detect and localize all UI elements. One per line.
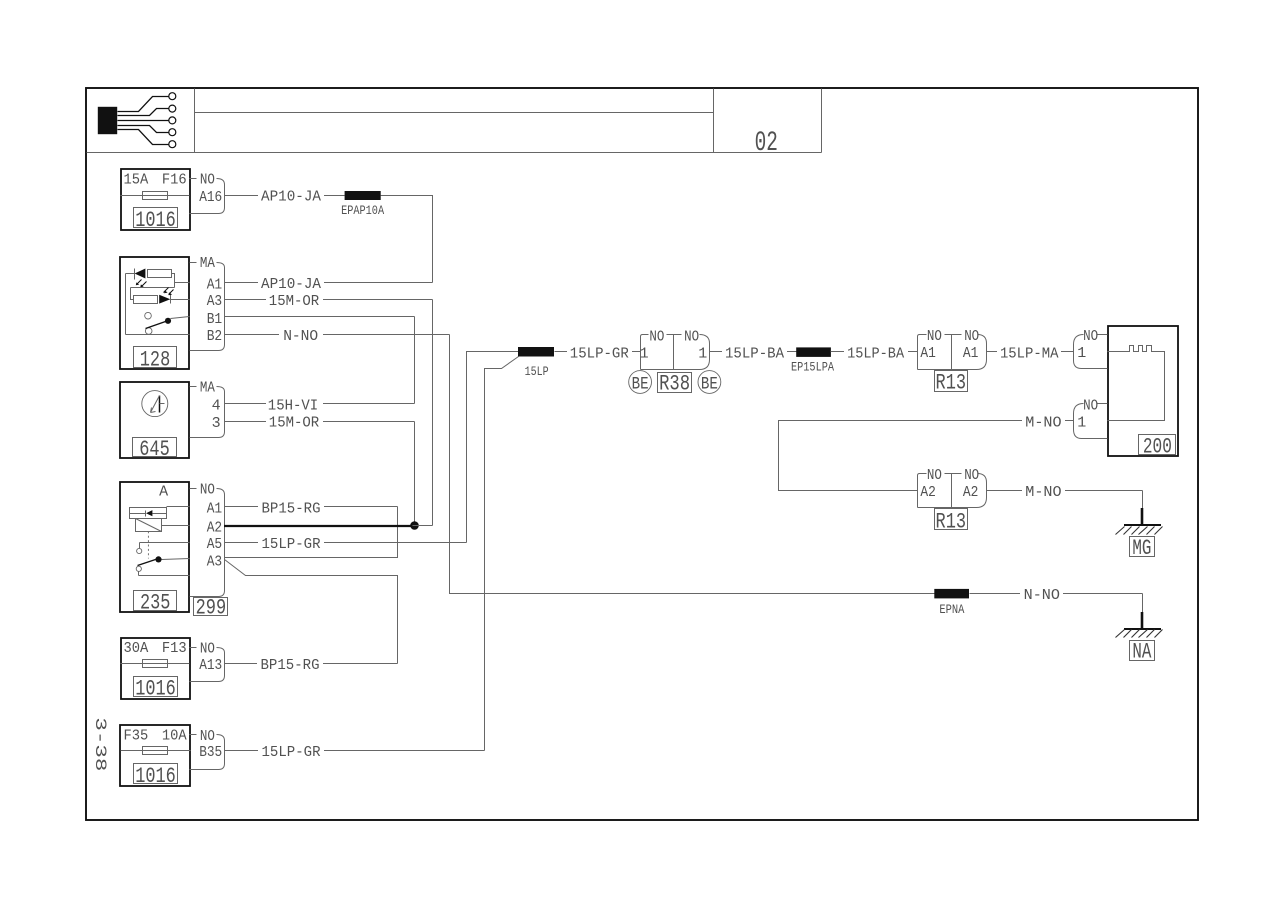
svg-text:1016: 1016 [135,764,176,789]
ground NA [1116,612,1163,665]
wire AP10-JA from A16 to splice EPAP10A [225,188,345,206]
235 internal: diode loop and coil [130,507,190,559]
svg-text:A1: A1 [207,277,223,294]
svg-text:1: 1 [640,345,649,362]
identification box 299 [194,596,228,621]
title box 02 [755,128,778,159]
connector NO/A1/A2/A5/A3 of 235 [190,482,225,597]
svg-text:15LP: 15LP [525,364,549,379]
engine relay 235 [120,482,189,612]
svg-text:NO: NO [200,482,215,499]
svg-text:A2: A2 [207,519,223,536]
wire 15M-OR from 128 A3 (down channel x=432.8) [225,293,433,526]
connector MA/4/3 of 645 [190,379,225,437]
svg-text:15LP-BA: 15LP-BA [847,345,904,362]
svg-text:R13: R13 [936,509,967,534]
svg-text:NO: NO [927,467,942,484]
235 internal: switch contacts [136,543,189,576]
svg-text:15A: 15A [124,172,149,189]
svg-text:NO: NO [200,172,215,189]
svg-text:15LP-GR: 15LP-GR [262,744,321,761]
svg-text:N-NO: N-NO [283,328,318,345]
svg-text:BE: BE [632,375,649,395]
junction dot on 15M-OR net [410,521,419,530]
thick wire from 235 A2 to junction [224,524,433,527]
svg-text:EP15LPA: EP15LPA [791,359,834,374]
wire AP10 net: splice to 128 pin A1 via channel x=432 [381,196,433,283]
svg-text:3-38: 3-38 [91,717,109,771]
svg-text:F35: F35 [124,728,149,745]
svg-text:128: 128 [140,347,171,372]
wire 15LP-BA from splice to R13 [831,345,918,362]
connector pin NO/A16 [190,172,225,214]
svg-text:MG: MG [1132,536,1151,561]
svg-text:A3: A3 [207,293,223,310]
svg-text:1: 1 [698,345,707,362]
connector pin NO/A13 [190,640,225,681]
svg-text:NO: NO [964,328,979,345]
svg-text:A5: A5 [207,536,223,553]
svg-text:BE: BE [701,375,718,395]
wire M-NO from R13(A2) to ground MG [987,484,1143,510]
svg-text:NO: NO [200,640,215,657]
fuse F13 30A (1016) [121,638,191,702]
svg-text:NO: NO [649,328,664,345]
hazard warning switch 128 [120,257,189,369]
svg-text:A: A [159,484,168,501]
wire 15LP-GR from B35 up to 15LP splice [225,357,519,762]
svg-text:B2: B2 [207,328,223,345]
svg-text:N-NO: N-NO [1024,587,1060,604]
connector pin NO/1 (200 bottom) [1074,397,1108,438]
wire N-NO from EPNA to ground NA [970,587,1143,613]
128 inner label box [134,347,177,373]
page frame [86,88,1198,820]
splice EPAP10A [341,191,384,218]
svg-text:AP10-JA: AP10-JA [261,276,321,293]
svg-text:A1: A1 [963,345,979,362]
svg-text:15LP-BA: 15LP-BA [725,345,784,362]
svg-text:1016: 1016 [135,208,176,233]
svg-text:15H-VI: 15H-VI [268,397,318,414]
svg-text:15LP-GR: 15LP-GR [570,345,629,362]
svg-text:1: 1 [1077,414,1086,431]
wire 15LP-GR from 235 A5 up to splice 15LP [225,352,519,553]
wire 15M-OR from 645 pin 3 down to junction [225,415,415,526]
connector pin NO/B35 [190,728,225,770]
svg-text:NO: NO [684,328,699,345]
svg-text:15LP-GR: 15LP-GR [262,536,321,553]
wire 15LP-MA from R13 to 200 [987,345,1074,362]
clock / timer unit 645 [120,382,189,462]
svg-text:AP10-JA: AP10-JA [261,189,321,206]
svg-text:B35: B35 [199,744,222,761]
svg-text:BP15-RG: BP15-RG [262,500,321,517]
svg-text:BP15-RG: BP15-RG [261,657,320,674]
svg-text:M-NO: M-NO [1025,414,1061,431]
svg-text:A13: A13 [199,657,222,674]
heated rear screen 200 [1108,326,1179,460]
svg-text:NO: NO [927,328,942,345]
connector MA/A1/A3/B1/B2 of 128 [190,255,225,350]
svg-text:3: 3 [212,415,221,432]
wire 15LP-BA from R38 to splice EP15LPA [710,345,797,362]
ground MG [1116,508,1163,561]
svg-text:02: 02 [755,128,778,159]
svg-text:MA: MA [200,255,215,272]
splice EP15LPA [791,347,834,374]
fuse F16 15A (1016) [121,169,191,233]
128 internal: LED1 + resistor R1 row (to A1) [126,269,190,288]
svg-text:A3: A3 [207,553,223,570]
grid reference 3-38 [91,717,109,771]
splice EPNA [934,589,969,617]
svg-text:B1: B1 [207,311,223,328]
svg-text:200: 200 [1143,435,1172,460]
svg-text:MA: MA [200,379,215,396]
wire 15LP-GR from splice to R38 [555,345,641,362]
svg-text:NO: NO [964,467,979,484]
relay base R38 (NO/1 - NO/1, BE) [629,328,721,396]
128 internal: switch contacts and lever (B1) [145,312,190,334]
svg-text:15M-OR: 15M-OR [269,293,319,310]
title block header lines [87,89,822,153]
wire A3 diagonal branch down to F13 A13 (BP15-RG) [225,560,398,664]
svg-text:10A: 10A [162,728,187,745]
connector pin NO/1 (200 top) [1074,328,1108,368]
svg-text:F16: F16 [162,172,187,189]
connector R13 (NO/A2 - NO/A2) [918,467,987,535]
fuse F35 10A (1016) [120,725,191,789]
svg-text:A2: A2 [963,484,979,501]
svg-text:15M-OR: 15M-OR [269,415,319,432]
128 internal: resistor R2 + LED2 row (to A3) [131,288,190,304]
wire BP15-RG from 235 A1 to A3 row (channel x=397.4) [225,500,398,558]
svg-text:A1: A1 [920,345,936,362]
svg-text:A16: A16 [199,189,222,206]
svg-text:1016: 1016 [135,677,176,702]
svg-text:15LP-MA: 15LP-MA [1000,345,1059,362]
wire N-NO from 128 B2 to splice EPNA [225,328,935,594]
svg-text:M-NO: M-NO [1025,484,1061,501]
connector R13 (NO/A1 - NO/A1) [918,328,987,396]
svg-text:299: 299 [196,596,227,621]
splice 15LP [518,347,554,379]
svg-text:235: 235 [140,590,171,615]
harness connector icon [98,93,176,148]
128 internal: left rail and B2 row [126,274,190,335]
wire 15H-VI from 645 pin 4 [225,397,415,414]
svg-text:30A: 30A [124,640,149,657]
svg-text:NA: NA [1132,640,1152,665]
wire from 128 B1 to 645 pin 4 (15H-VI channel x=414.2) [225,317,415,404]
svg-text:A2: A2 [920,484,936,501]
svg-text:1: 1 [1077,345,1086,362]
svg-text:645: 645 [139,437,170,462]
svg-text:NO: NO [1083,397,1098,414]
235 inner label box [134,590,177,615]
svg-text:F13: F13 [162,640,187,657]
svg-text:EPNA: EPNA [939,602,964,617]
svg-text:R38: R38 [659,372,690,397]
wire BP15-RG from A13 [225,657,398,674]
svg-text:R13: R13 [936,371,967,396]
wire AP10-JA from 128 A1 [225,276,433,294]
svg-text:A1: A1 [207,501,223,518]
svg-text:NO: NO [1083,328,1098,345]
wire M-NO from R13(A2) up-over to 200 bottom pin [779,414,1074,491]
svg-text:NO: NO [200,728,215,745]
svg-text:EPAP10A: EPAP10A [341,203,384,218]
svg-text:4: 4 [212,397,221,414]
